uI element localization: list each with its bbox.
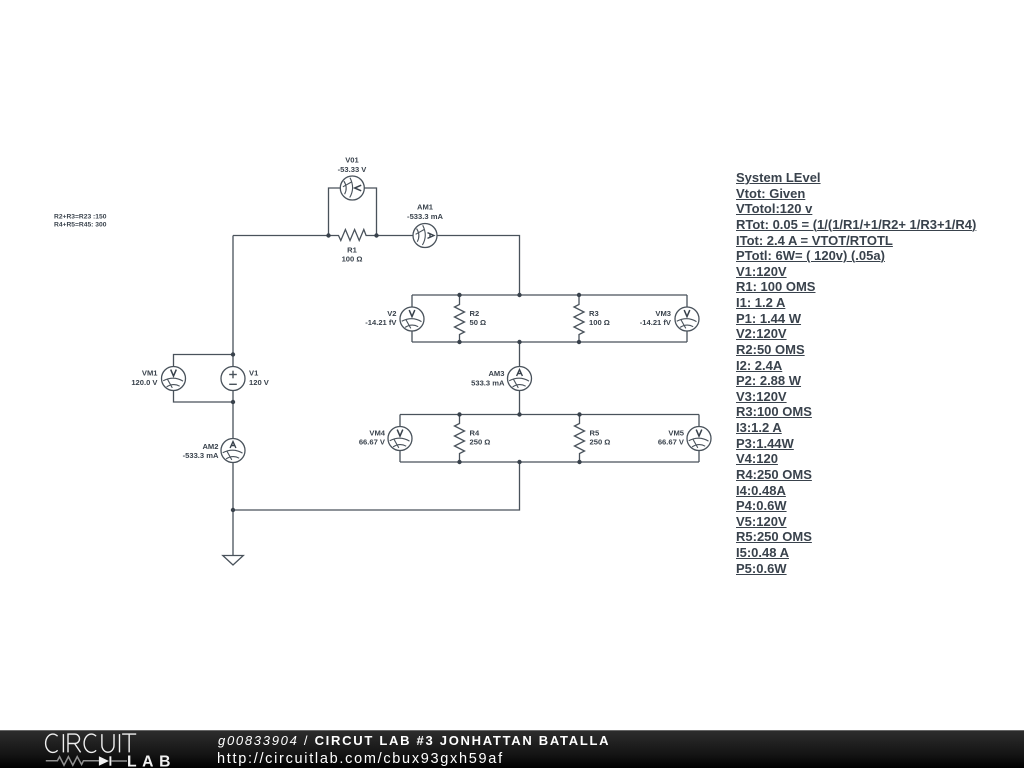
- node bottom rail center bottom: [517, 460, 521, 464]
- svg-text:-533.3 mA: -533.3 mA: [183, 451, 219, 460]
- wire VM1 bottom branch: [174, 391, 234, 403]
- svg-text:AM3: AM3: [488, 369, 504, 378]
- wire V2 bottom lead: [411, 331, 413, 342]
- svg-text:V1: V1: [249, 369, 259, 378]
- svg-text:AM2: AM2: [202, 442, 218, 451]
- ground: [223, 556, 244, 566]
- node R5 top: [577, 412, 581, 416]
- ammeter AM3: [508, 367, 532, 391]
- wire left vertical main: [232, 236, 234, 367]
- node R3 bottom: [577, 340, 581, 344]
- svg-text:-14.21 fV: -14.21 fV: [640, 318, 672, 327]
- svg-text:VM5: VM5: [668, 429, 684, 438]
- svg-text:100 Ω: 100 Ω: [589, 318, 610, 327]
- node R3 top: [577, 293, 581, 297]
- node R1 left junction: [326, 233, 330, 237]
- svg-text:R4: R4: [470, 429, 480, 438]
- voltmeter VM5: [687, 427, 711, 451]
- annotation list: [736, 170, 976, 576]
- wire bottom return: [233, 462, 520, 510]
- svg-text:R4+R5=R45: 300: R4+R5=R45: 300: [54, 221, 107, 228]
- voltmeter V2: [400, 307, 424, 331]
- svg-text:V2: V2: [387, 309, 396, 318]
- voltmeter VM4: [388, 427, 412, 451]
- node bottom rail center top: [517, 412, 521, 416]
- wire VM3 bottom lead: [686, 331, 688, 342]
- voltmeter VM3: [675, 307, 699, 331]
- node R4 top: [457, 412, 461, 416]
- svg-text:-533.3 mA: -533.3 mA: [407, 212, 443, 221]
- wire top rail left: [233, 235, 329, 237]
- node mid rail center bottom: [517, 340, 521, 344]
- ammeter AM2: [221, 439, 245, 463]
- wire V2 top lead: [411, 295, 413, 307]
- node ground junction: [231, 508, 235, 512]
- wire bottom row bottom rail: [400, 461, 699, 463]
- svg-text:VM1: VM1: [142, 369, 158, 378]
- wire VM5 top lead: [698, 415, 700, 427]
- node R2 top: [457, 293, 461, 297]
- svg-text:R5: R5: [590, 429, 600, 438]
- wire AM2 to ground node: [232, 463, 234, 511]
- svg-text:250 Ω: 250 Ω: [590, 438, 611, 447]
- voltage source V1: [221, 367, 245, 391]
- svg-text:R1: R1: [347, 246, 357, 255]
- footer bar: [0, 730, 1024, 768]
- svg-text:VM3: VM3: [655, 309, 671, 318]
- svg-text:533.3 mA: 533.3 mA: [471, 379, 505, 388]
- node R2 bottom: [457, 340, 461, 344]
- footer url: [217, 751, 504, 767]
- wire VM3 top lead: [686, 295, 688, 307]
- wire ground lead: [232, 510, 234, 556]
- svg-text:250 Ω: 250 Ω: [470, 438, 491, 447]
- node mid rail center top: [517, 293, 521, 297]
- svg-text:66.67 V: 66.67 V: [359, 438, 386, 447]
- node R5 bottom: [577, 460, 581, 464]
- svg-text:R2: R2: [470, 309, 480, 318]
- voltmeter VM1: [162, 367, 186, 391]
- wire mid row top rail: [412, 294, 687, 296]
- wire V01 left branch: [329, 188, 341, 236]
- svg-text:AM1: AM1: [417, 203, 434, 212]
- wire mid row bottom rail: [412, 341, 687, 343]
- svg-text:50 Ω: 50 Ω: [470, 318, 487, 327]
- svg-text:R2+R3=R23 :150: R2+R3=R23 :150: [54, 214, 107, 221]
- wire VM5 bottom lead: [698, 451, 700, 463]
- svg-text:-14.21 fV: -14.21 fV: [365, 318, 397, 327]
- node VM1 bottom junction: [231, 400, 235, 404]
- node VM1 top junction: [231, 352, 235, 356]
- svg-text:VM4: VM4: [369, 429, 385, 438]
- wire VM4 top lead: [399, 415, 401, 427]
- ammeter AM1: [413, 224, 437, 248]
- wire AM3 top lead: [519, 342, 521, 367]
- CircuitLab logo: [0, 731, 200, 769]
- wire VM4 bottom lead: [399, 451, 401, 463]
- wire AM1 to center drop: [437, 236, 520, 296]
- node R1 right junction: [374, 233, 378, 237]
- wire V01 right branch: [364, 188, 376, 236]
- svg-text:100 Ω: 100 Ω: [342, 255, 363, 264]
- svg-text:R3: R3: [589, 309, 599, 318]
- wire V1 to AM2: [232, 391, 234, 439]
- voltmeter V01: [340, 176, 364, 200]
- resistor R4: [455, 415, 465, 463]
- wire VM1 top branch: [174, 355, 234, 367]
- svg-text:120.0 V: 120.0 V: [131, 378, 158, 387]
- resistor R5: [575, 415, 585, 463]
- wire R1 right to AM1: [377, 235, 414, 237]
- svg-text:V01: V01: [345, 156, 359, 165]
- resistor R2: [455, 295, 465, 342]
- resistor R1: [329, 230, 377, 241]
- svg-text:120 V: 120 V: [249, 378, 270, 387]
- node R4 bottom: [457, 460, 461, 464]
- resistor R3: [574, 295, 584, 342]
- svg-text:LAB: LAB: [127, 753, 176, 769]
- wire bottom row top rail: [400, 414, 699, 416]
- svg-text:66.67 V: 66.67 V: [658, 438, 685, 447]
- svg-text:-53.33 V: -53.33 V: [338, 165, 368, 174]
- footer title: [218, 733, 610, 748]
- wire AM3 bottom lead: [519, 391, 521, 415]
